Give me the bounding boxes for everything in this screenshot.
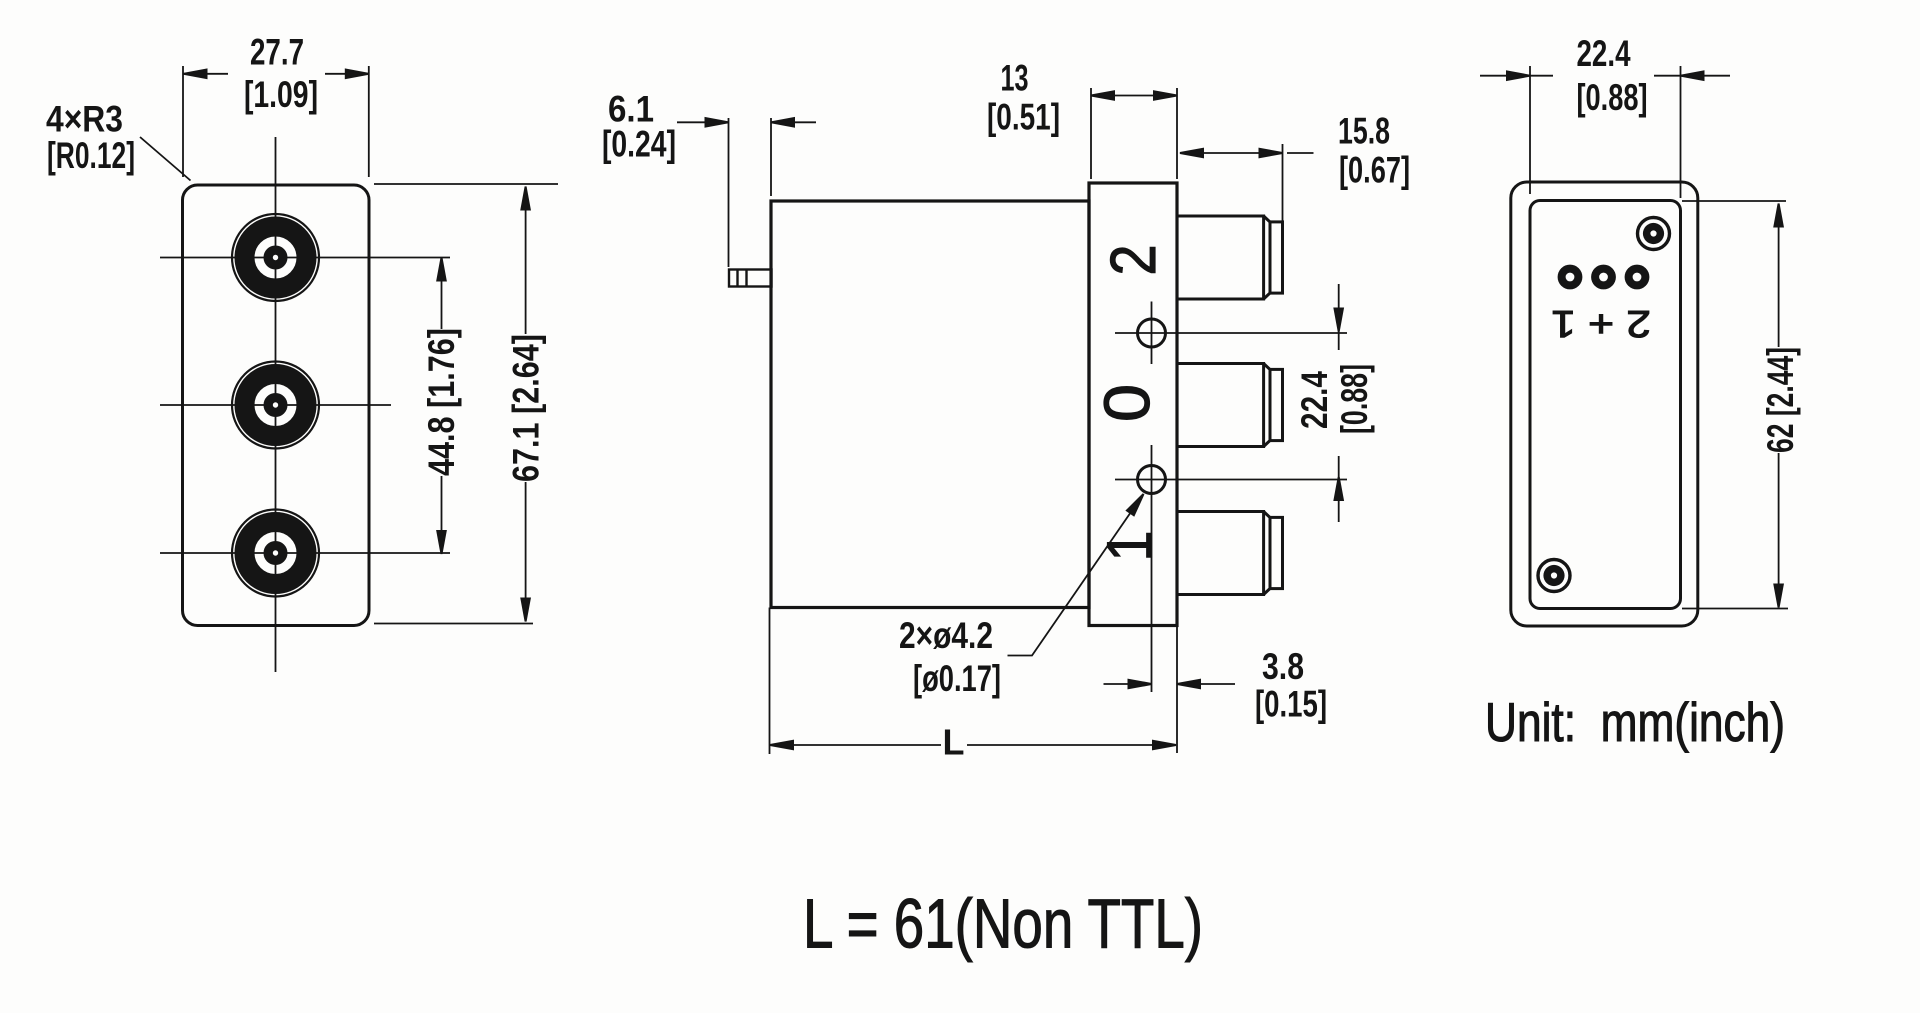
svg-text:2: 2 bbox=[1097, 245, 1169, 276]
svg-text:4×R3: 4×R3 bbox=[46, 99, 123, 140]
svg-text:L = 61(Non TTL): L = 61(Non TTL) bbox=[803, 885, 1203, 963]
svg-text:[0.51]: [0.51] bbox=[987, 97, 1060, 138]
leader 2xD4.2 bbox=[1008, 496, 1143, 656]
dimension 62 bbox=[1682, 201, 1788, 609]
svg-text:3.8: 3.8 bbox=[1262, 646, 1304, 687]
svg-text:1: 1 bbox=[1094, 531, 1166, 562]
connector J2 centerline bbox=[160, 404, 391, 406]
svg-text:[0.24]: [0.24] bbox=[602, 124, 676, 165]
connector J3 front bbox=[232, 510, 319, 597]
svg-text:[0.15]: [0.15] bbox=[1255, 684, 1327, 725]
RCA stub 2 (top) bbox=[1177, 216, 1283, 299]
dimension 44.8 bbox=[441, 259, 443, 553]
svg-text:22.4: 22.4 bbox=[1577, 33, 1631, 74]
rear outline bbox=[1511, 182, 1698, 626]
mounting hole H1 bbox=[1138, 319, 1166, 347]
dim text 44.8 [1.76] rotated bbox=[421, 328, 462, 476]
dimension 6.1 bbox=[677, 118, 816, 267]
dim text 22.4 rotated bbox=[1294, 371, 1335, 429]
svg-text:2×ø4.2: 2×ø4.2 bbox=[899, 615, 993, 656]
svg-text:44.8 [1.76]: 44.8 [1.76] bbox=[421, 328, 462, 476]
connector J1 front bbox=[232, 214, 319, 301]
connector J3 centerline bbox=[160, 552, 450, 554]
label 2 + 1 rotated 180 bbox=[1551, 302, 1651, 344]
dim text 67.1 [2.64] rotated bbox=[506, 334, 547, 482]
RCA stub 0 (middle) bbox=[1177, 364, 1283, 447]
body outline bbox=[771, 201, 1089, 608]
dimension 22.4 rear bbox=[1480, 66, 1730, 198]
flange digit 1 rotated bbox=[1094, 531, 1166, 562]
screw S2 bbox=[1538, 560, 1570, 592]
dim text 62 [2.44] rotated bbox=[1760, 347, 1801, 453]
svg-text:[0.67]: [0.67] bbox=[1339, 150, 1410, 191]
dim text [0.88] rotated bbox=[1334, 364, 1375, 434]
pin P1 bbox=[1558, 265, 1583, 290]
rear inner plate bbox=[1530, 201, 1681, 609]
svg-text:22.4: 22.4 bbox=[1294, 371, 1335, 429]
svg-text:0: 0 bbox=[1091, 384, 1163, 422]
svg-text:[0.88]: [0.88] bbox=[1334, 364, 1375, 434]
svg-text:Unit: mm(inch): Unit: mm(inch) bbox=[1485, 691, 1785, 753]
connector J1 centerline bbox=[160, 257, 450, 259]
svg-text:27.7: 27.7 bbox=[250, 32, 304, 73]
dimension 3.8 bbox=[1104, 626, 1236, 754]
svg-text:62 [2.44]: 62 [2.44] bbox=[1760, 347, 1801, 453]
leader 4xR3 bbox=[140, 137, 191, 181]
flange digit 2 rotated bbox=[1097, 245, 1169, 276]
dimension 67.1 bbox=[374, 184, 558, 624]
svg-text:L: L bbox=[943, 722, 965, 763]
flange plate bbox=[1089, 183, 1177, 626]
RCA stub 1 (bottom) bbox=[1177, 512, 1283, 595]
svg-text:[ø0.17]: [ø0.17] bbox=[913, 658, 1001, 699]
svg-text:[1.09]: [1.09] bbox=[244, 74, 318, 115]
mounting hole H2 bbox=[1138, 466, 1166, 494]
svg-text:[0.88]: [0.88] bbox=[1577, 77, 1648, 118]
pin P3 bbox=[1625, 265, 1650, 290]
flange digit 0 rotated bbox=[1091, 384, 1163, 422]
svg-text:67.1 [2.64]: 67.1 [2.64] bbox=[506, 334, 547, 482]
screw S1 bbox=[1638, 218, 1670, 250]
svg-text:15.8: 15.8 bbox=[1338, 111, 1390, 152]
dimension 22.4 (hole pitch) bbox=[1338, 284, 1340, 522]
svg-text:2 + 1: 2 + 1 bbox=[1551, 302, 1651, 344]
svg-text:[R0.12]: [R0.12] bbox=[47, 135, 135, 176]
vertical centerline bbox=[275, 137, 277, 672]
connector J2 front bbox=[232, 362, 319, 449]
dimension 27.7 width bbox=[183, 66, 369, 177]
dimension L bbox=[770, 608, 1177, 755]
pin P2 bbox=[1591, 265, 1616, 290]
dimension 13 bbox=[1091, 88, 1177, 179]
svg-text:13: 13 bbox=[1001, 58, 1029, 99]
front plate outline bbox=[183, 185, 370, 626]
dimension 15.8 bbox=[1180, 144, 1314, 222]
mounting pin bbox=[729, 270, 772, 287]
